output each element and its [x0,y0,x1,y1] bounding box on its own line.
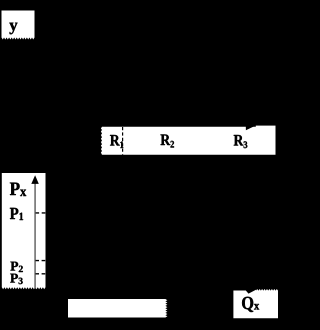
node P3 text [10,274,23,284]
Px axis shaft [34,181,36,289]
node P2 text [10,262,22,272]
R strip box [101,127,276,155]
node Qx label box [233,289,278,318]
R strip notch wedge [246,126,256,131]
tick P2 dashed [35,260,45,262]
node R3 text [234,135,248,148]
node P1 text [10,208,23,220]
node R1 text [110,135,123,148]
R strip right raised top [256,126,276,130]
node Qx text [242,297,259,312]
tick P1 dashed [36,212,46,214]
Px axis arrowhead [31,175,39,184]
empty label box [68,299,167,318]
node y label box [2,11,35,40]
node Px text [10,183,26,196]
node R1 dashed line [122,127,124,155]
tick P3 dashed [35,273,45,275]
node R2 text [161,135,175,148]
node y text [9,23,17,35]
Px axis strip box [2,173,46,289]
